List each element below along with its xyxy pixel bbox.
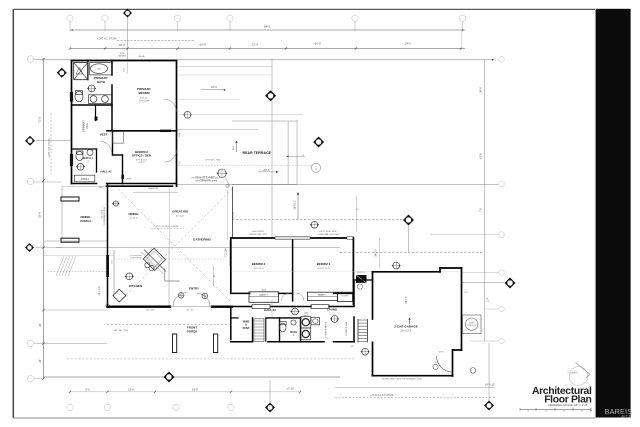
svg-text:24'-0.5: 24'-0.5 [376,249,378,257]
svg-text:OPEN: OPEN [126,178,132,180]
svg-text:2 CAR GARAGE: 2 CAR GARAGE [394,325,418,329]
svg-text:14'-6 1/2: 14'-6 1/2 [485,384,495,387]
svg-text:SQ: SQ [179,161,181,164]
svg-text:BEDRM 3: BEDRM 3 [252,262,266,266]
svg-text:DBFPN ILRE CPRT: DBFPN ILRE CPRT [249,234,268,236]
svg-text:12' CLG: 12' CLG [130,218,138,220]
svg-text:SB/YMO: SB/YMO [118,55,126,57]
svg-text:4'-0 PT 11'-0: 4'-0 PT 11'-0 [317,268,330,270]
svg-text:OFFICE / DEN: OFFICE / DEN [132,154,151,158]
svg-text:94'-5: 94'-5 [264,25,271,29]
svg-text:LAUND: LAUND [327,307,337,311]
svg-text:VEST: VEST [100,133,108,137]
svg-text:OPT'L STBL WOL: OPT'L STBL WOL [319,231,337,233]
svg-text:18' CLG: 18' CLG [176,215,184,217]
svg-text:NORTH: NORTH [570,372,577,374]
svg-text:BATH 1: BATH 1 [83,156,93,160]
svg-text:+ OPT H.B. TYP CL: + OPT H.B. TYP CL [48,137,51,159]
svg-text:GATHERING: GATHERING [193,238,211,242]
svg-text:24'-0.5: 24'-0.5 [406,296,408,304]
svg-text:+ OPT HUH + TREL: + OPT HUH + TREL [203,160,220,162]
svg-text:DINING: DINING [80,215,91,219]
svg-text:42 FP CL: 42 FP CL [357,272,366,274]
svg-text:BEDRM 4: BEDRM 4 [317,262,331,266]
svg-text:26'-6 1/2: 26'-6 1/2 [294,200,297,210]
svg-text:DRAWING SCALE 1/4" = 1'-0": DRAWING SCALE 1/4" = 1'-0" [548,403,587,407]
svg-text:COUNTER SINK: COUNTER SINK [346,321,348,336]
svg-text:165 CRN: 165 CRN [146,310,155,312]
svg-text:PORCH: PORCH [187,329,197,333]
svg-text:SCREENED PORCH: SCREENED PORCH [104,206,106,224]
svg-text:20' x 21'-6: 20' x 21'-6 [401,331,412,333]
svg-text:+ 0'-10 14'-6 TYPICAL: + 0'-10 14'-6 TYPICAL [370,394,394,397]
svg-text:ART &: ART & [621,414,631,418]
svg-text:GREAT RM: GREAT RM [172,210,188,214]
svg-text:KITCHEN: KITCHEN [129,284,142,288]
svg-text:165/3: 165/3 [119,53,125,55]
svg-text:3 1/2 x 11 7/8 LVL 2.0E BM: 3 1/2 x 11 7/8 LVL 2.0E BM [156,226,179,228]
svg-text:ENTRY: ENTRY [189,287,199,291]
svg-text:CLOSET: CLOSET [341,296,349,298]
svg-text:7'-10 3/4: 7'-10 3/4 [226,248,228,258]
svg-text:5040: 5040 [318,295,324,297]
svg-text:REAR TERRACE: REAR TERRACE [243,151,272,155]
svg-text:HALL #1: HALL #1 [100,170,112,174]
svg-text:11'-6: 11'-6 [488,297,490,303]
svg-text:3 PT 4 CLG: 3 PT 4 CLG [136,159,148,161]
svg-text:ST 700: ST 700 [187,310,195,312]
svg-text:5050 LNTRL: 5050 LNTRL [252,231,265,233]
svg-text:4' CLG +: 4' CLG + [140,98,149,100]
svg-text:4040: 4040 [259,295,265,297]
svg-text:SUNROOM: SUNROOM [148,188,158,190]
svg-text:14'-7 1/2: 14'-7 1/2 [99,286,101,296]
svg-text:PRIMARY: PRIMARY [137,87,151,91]
svg-text:+10'-6: +10'-6 [263,169,271,172]
svg-text:TOPO: TOPO [438,352,444,354]
svg-text:BATH: BATH [290,331,297,334]
svg-text:CONC LDG: CONC LDG [467,325,477,327]
svg-text:B/FD: B/FD [304,315,309,317]
svg-text:DINING: DINING [128,212,139,216]
svg-text:TWO COMPRL SCFFR: TWO COMPRL SCFFR [195,177,215,179]
svg-text:4'-0 x 11'-0: 4'-0 x 11'-0 [253,268,264,270]
svg-text:BATH: BATH [97,80,105,84]
svg-text:PORCH: PORCH [80,219,90,223]
svg-text:16'-2 1/2: 16'-2 1/2 [102,209,104,218]
svg-text:36x36: 36x36 [469,322,474,324]
svg-text:BEDRM: BEDRM [139,91,151,95]
svg-text:PRIMARY: PRIMARY [94,76,108,80]
svg-text:FRONT: FRONT [187,326,197,330]
svg-text:+ OPT 1: + OPT 1 [137,162,146,164]
svg-text:1 PT CLBF: 1 PT CLBF [139,101,150,103]
svg-text:BIRD JOLR: BIRD JOLR [200,180,211,182]
